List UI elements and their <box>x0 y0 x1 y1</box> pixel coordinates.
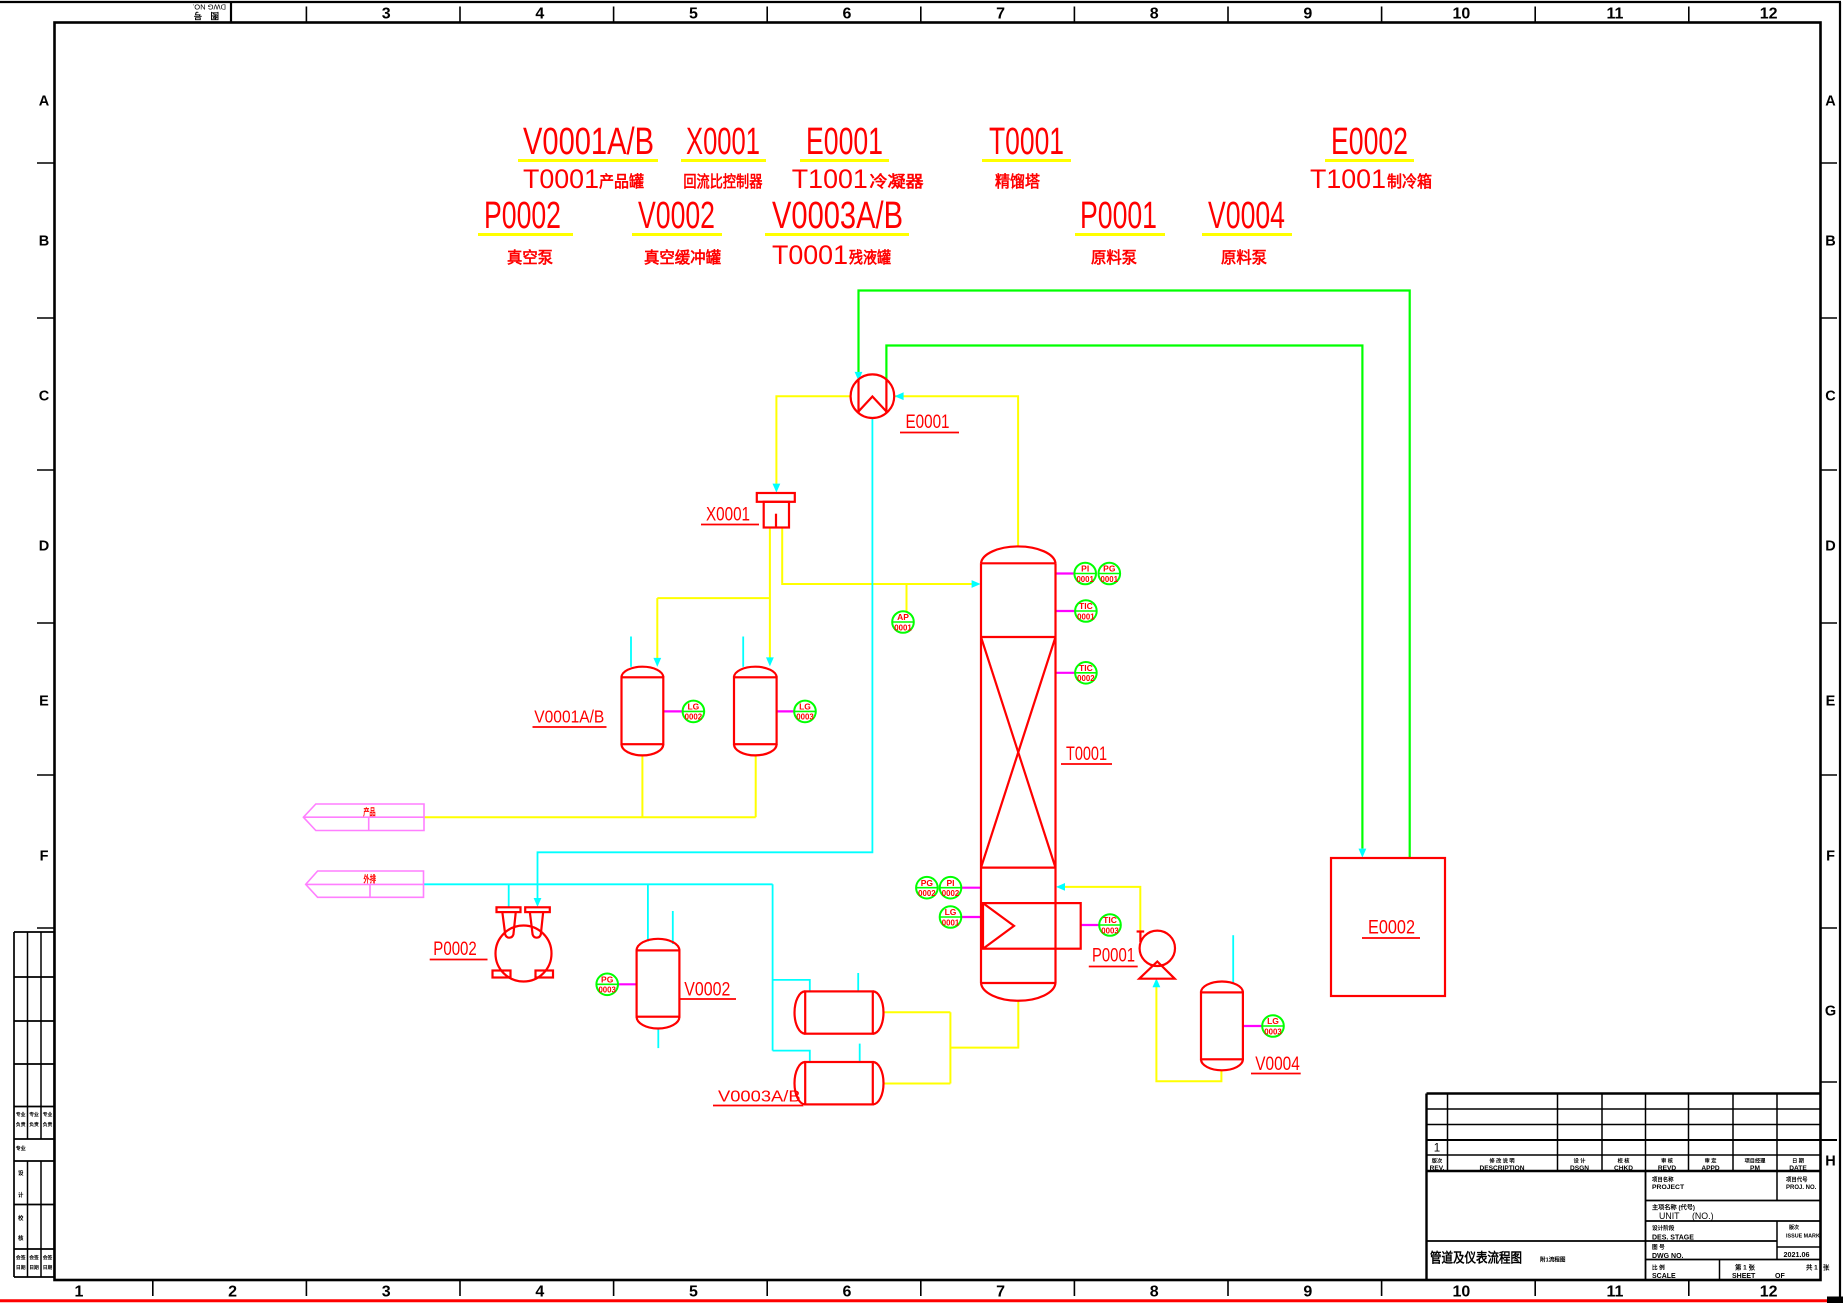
svg-text:P0001: P0001 <box>1080 195 1157 237</box>
svg-text:日 期: 日 期 <box>1792 1157 1804 1165</box>
svg-text:F: F <box>40 848 49 864</box>
svg-text:TIC: TIC <box>1079 663 1093 673</box>
svg-text:校: 校 <box>18 1214 24 1222</box>
svg-text:E: E <box>39 693 49 709</box>
svg-text:E0001: E0001 <box>806 121 883 163</box>
svg-text:0001: 0001 <box>1076 574 1094 584</box>
svg-text:V0002: V0002 <box>638 195 715 237</box>
svg-text:G: G <box>1825 1003 1836 1019</box>
svg-text:版次: 版次 <box>1431 1157 1443 1165</box>
svg-text:项目经理: 项目经理 <box>1745 1157 1767 1165</box>
svg-text:项目名称: 项目名称 <box>1652 1176 1674 1184</box>
svg-text:DSGN: DSGN <box>1570 1165 1589 1172</box>
svg-text:原料泵: 原料泵 <box>1221 248 1267 267</box>
svg-text:PROJECT: PROJECT <box>1652 1184 1685 1191</box>
svg-text:PI: PI <box>946 878 954 888</box>
svg-text:V0003A/B: V0003A/B <box>772 195 903 237</box>
svg-text:日期: 日期 <box>29 1264 39 1271</box>
svg-text:12: 12 <box>1760 1284 1778 1301</box>
svg-text:SHEET: SHEET <box>1732 1273 1756 1280</box>
svg-text:11: 11 <box>1607 6 1624 23</box>
svg-text:V0003A/B: V0003A/B <box>718 1089 801 1106</box>
svg-text:T0001: T0001 <box>989 121 1064 163</box>
svg-text:A: A <box>39 93 50 109</box>
svg-text:专业: 专业 <box>43 1111 53 1118</box>
svg-text:张: 张 <box>1823 1263 1830 1272</box>
svg-text:负责: 负责 <box>43 1121 53 1128</box>
svg-text:T0001: T0001 <box>523 164 599 194</box>
svg-text:会签: 会签 <box>42 1254 53 1261</box>
svg-text:0002: 0002 <box>1077 673 1095 683</box>
svg-text:V0004: V0004 <box>1208 195 1285 237</box>
svg-text:修 改 说 明: 修 改 说 明 <box>1488 1157 1514 1165</box>
svg-text:PM: PM <box>1750 1165 1760 1172</box>
svg-text:0002: 0002 <box>942 888 960 898</box>
svg-text:DESCRIPTION: DESCRIPTION <box>1479 1165 1524 1172</box>
svg-text:ISSUE MARK: ISSUE MARK <box>1786 1234 1820 1240</box>
svg-text:0001: 0001 <box>942 917 960 927</box>
svg-text:H: H <box>1825 1153 1835 1169</box>
svg-text:项目代号: 项目代号 <box>1786 1176 1808 1184</box>
svg-text:APPD: APPD <box>1701 1165 1720 1172</box>
svg-text:3: 3 <box>382 6 391 23</box>
svg-text:审 定: 审 定 <box>1705 1157 1718 1165</box>
svg-text:共 1: 共 1 <box>1806 1263 1818 1272</box>
svg-text:DES. STAGE: DES. STAGE <box>1652 1235 1694 1242</box>
svg-text:附1流程图: 附1流程图 <box>1540 1256 1566 1264</box>
svg-text:图 号: 图 号 <box>1652 1243 1665 1251</box>
svg-text:OF: OF <box>1775 1273 1785 1280</box>
svg-text:8: 8 <box>1150 6 1159 23</box>
svg-text:E0002: E0002 <box>1331 121 1408 163</box>
svg-text:REVD: REVD <box>1658 1165 1677 1172</box>
svg-text:C: C <box>1825 388 1836 404</box>
svg-text:LG: LG <box>945 907 957 917</box>
svg-text:V0001A/B: V0001A/B <box>534 707 604 727</box>
svg-text:DWG NO.: DWG NO. <box>192 2 226 11</box>
svg-text:CHKD: CHKD <box>1614 1165 1633 1172</box>
svg-text:LG: LG <box>799 702 811 712</box>
svg-text:7: 7 <box>996 6 1005 23</box>
svg-text:4: 4 <box>535 1284 544 1301</box>
svg-text:AP: AP <box>897 612 909 622</box>
svg-text:真空泵: 真空泵 <box>507 248 553 267</box>
svg-text:PI: PI <box>1081 564 1089 574</box>
svg-text:PG: PG <box>1103 564 1116 574</box>
svg-text:12: 12 <box>1760 6 1778 23</box>
svg-text:10: 10 <box>1453 6 1471 23</box>
svg-text:冷凝器: 冷凝器 <box>870 172 925 191</box>
svg-text:F: F <box>1826 848 1835 864</box>
svg-text:REV.: REV. <box>1430 1165 1445 1172</box>
svg-text:0003: 0003 <box>598 985 616 995</box>
svg-text:图 号: 图 号 <box>191 11 219 21</box>
svg-text:TIC: TIC <box>1103 915 1117 925</box>
svg-text:T1001: T1001 <box>792 164 868 194</box>
svg-text:版次: 版次 <box>1789 1224 1799 1231</box>
svg-text:6: 6 <box>843 1284 852 1301</box>
svg-text:8: 8 <box>1150 1284 1159 1301</box>
svg-text:C: C <box>39 388 50 404</box>
svg-text:X0001: X0001 <box>686 121 760 163</box>
svg-text:E0002: E0002 <box>1368 918 1415 939</box>
svg-text:设 计: 设 计 <box>1574 1157 1587 1165</box>
svg-text:设计阶段: 设计阶段 <box>1652 1224 1675 1232</box>
svg-text:B: B <box>39 233 49 249</box>
svg-text:第 1 张: 第 1 张 <box>1735 1263 1755 1272</box>
svg-text:LG: LG <box>687 702 699 712</box>
svg-text:SCALE: SCALE <box>1652 1273 1676 1280</box>
svg-text:设: 设 <box>18 1169 24 1177</box>
svg-text:负责: 负责 <box>29 1121 39 1128</box>
svg-text:PG: PG <box>601 975 614 985</box>
svg-text:LG: LG <box>1267 1016 1279 1026</box>
svg-text:7: 7 <box>996 1284 1005 1301</box>
svg-text:D: D <box>39 538 49 554</box>
svg-text:计: 计 <box>18 1191 24 1199</box>
svg-text:DATE: DATE <box>1789 1165 1807 1172</box>
svg-text:TIC: TIC <box>1079 601 1093 611</box>
svg-text:1: 1 <box>75 1284 84 1301</box>
svg-text:核: 核 <box>18 1234 24 1242</box>
svg-text:V0001A/B: V0001A/B <box>523 121 654 163</box>
svg-text:0001: 0001 <box>894 622 912 632</box>
svg-text:D: D <box>1825 538 1835 554</box>
svg-text:E: E <box>1826 693 1836 709</box>
svg-text:会签: 会签 <box>28 1254 39 1261</box>
svg-text:5: 5 <box>689 1284 698 1301</box>
svg-text:0001: 0001 <box>1077 611 1095 621</box>
svg-text:真空缓冲罐: 真空缓冲罐 <box>644 248 721 267</box>
svg-text:5: 5 <box>689 6 698 23</box>
svg-text:产品罐: 产品罐 <box>599 172 644 191</box>
svg-text:(NO.): (NO.) <box>1692 1211 1714 1221</box>
svg-text:残液罐: 残液罐 <box>849 248 891 267</box>
svg-text:专业: 专业 <box>16 1145 26 1152</box>
svg-text:精馏塔: 精馏塔 <box>995 172 1041 191</box>
svg-text:X0001: X0001 <box>706 505 750 526</box>
svg-text:1: 1 <box>1434 1143 1440 1155</box>
svg-text:0002: 0002 <box>918 888 936 898</box>
svg-text:P0002: P0002 <box>484 195 561 237</box>
svg-text:10: 10 <box>1453 1284 1471 1301</box>
svg-text:负责: 负责 <box>16 1121 26 1128</box>
svg-text:0003: 0003 <box>796 712 814 722</box>
svg-text:T0001: T0001 <box>1066 744 1107 765</box>
svg-text:2021.06: 2021.06 <box>1784 1250 1810 1259</box>
svg-text:PG: PG <box>921 878 934 888</box>
svg-text:3: 3 <box>382 1284 391 1301</box>
svg-text:原料泵: 原料泵 <box>1091 248 1137 267</box>
svg-text:0001: 0001 <box>1101 574 1119 584</box>
svg-text:审 核: 审 核 <box>1661 1157 1674 1165</box>
svg-text:UNIT: UNIT <box>1659 1211 1680 1221</box>
svg-text:E0001: E0001 <box>906 412 950 433</box>
svg-text:6: 6 <box>843 6 852 23</box>
svg-text:专业: 专业 <box>16 1111 26 1118</box>
svg-text:日期: 日期 <box>16 1264 26 1271</box>
svg-text:0002: 0002 <box>685 712 703 722</box>
svg-text:管道及仪表流程图: 管道及仪表流程图 <box>1430 1250 1522 1266</box>
svg-text:4: 4 <box>535 6 544 23</box>
svg-text:P0001: P0001 <box>1092 946 1135 967</box>
svg-text:日期: 日期 <box>43 1264 53 1271</box>
svg-text:0003: 0003 <box>1101 925 1119 935</box>
svg-text:B: B <box>1825 233 1835 249</box>
svg-text:T1001: T1001 <box>1310 164 1386 194</box>
svg-text:11: 11 <box>1607 1284 1624 1301</box>
svg-text:回流比控制器: 回流比控制器 <box>683 172 763 191</box>
svg-text:制冷箱: 制冷箱 <box>1387 172 1432 191</box>
svg-text:0003: 0003 <box>1264 1026 1282 1036</box>
svg-text:T0001: T0001 <box>772 240 848 270</box>
svg-text:V0004: V0004 <box>1255 1054 1300 1075</box>
svg-text:专业: 专业 <box>29 1111 39 1118</box>
svg-text:会签: 会签 <box>15 1254 26 1261</box>
svg-text:比 例: 比 例 <box>1652 1264 1665 1272</box>
svg-text:DWG NO.: DWG NO. <box>1652 1253 1684 1260</box>
svg-text:9: 9 <box>1303 1284 1312 1301</box>
svg-text:A: A <box>1825 93 1836 109</box>
svg-text:V0002: V0002 <box>684 979 730 1000</box>
svg-text:外排: 外排 <box>363 873 376 885</box>
svg-text:9: 9 <box>1303 6 1312 23</box>
svg-text:P0002: P0002 <box>433 939 477 960</box>
svg-text:PROJ. NO.: PROJ. NO. <box>1786 1185 1817 1191</box>
svg-text:2: 2 <box>228 1284 237 1301</box>
svg-text:产品: 产品 <box>363 807 376 819</box>
svg-text:校 核: 校 核 <box>1618 1157 1631 1165</box>
